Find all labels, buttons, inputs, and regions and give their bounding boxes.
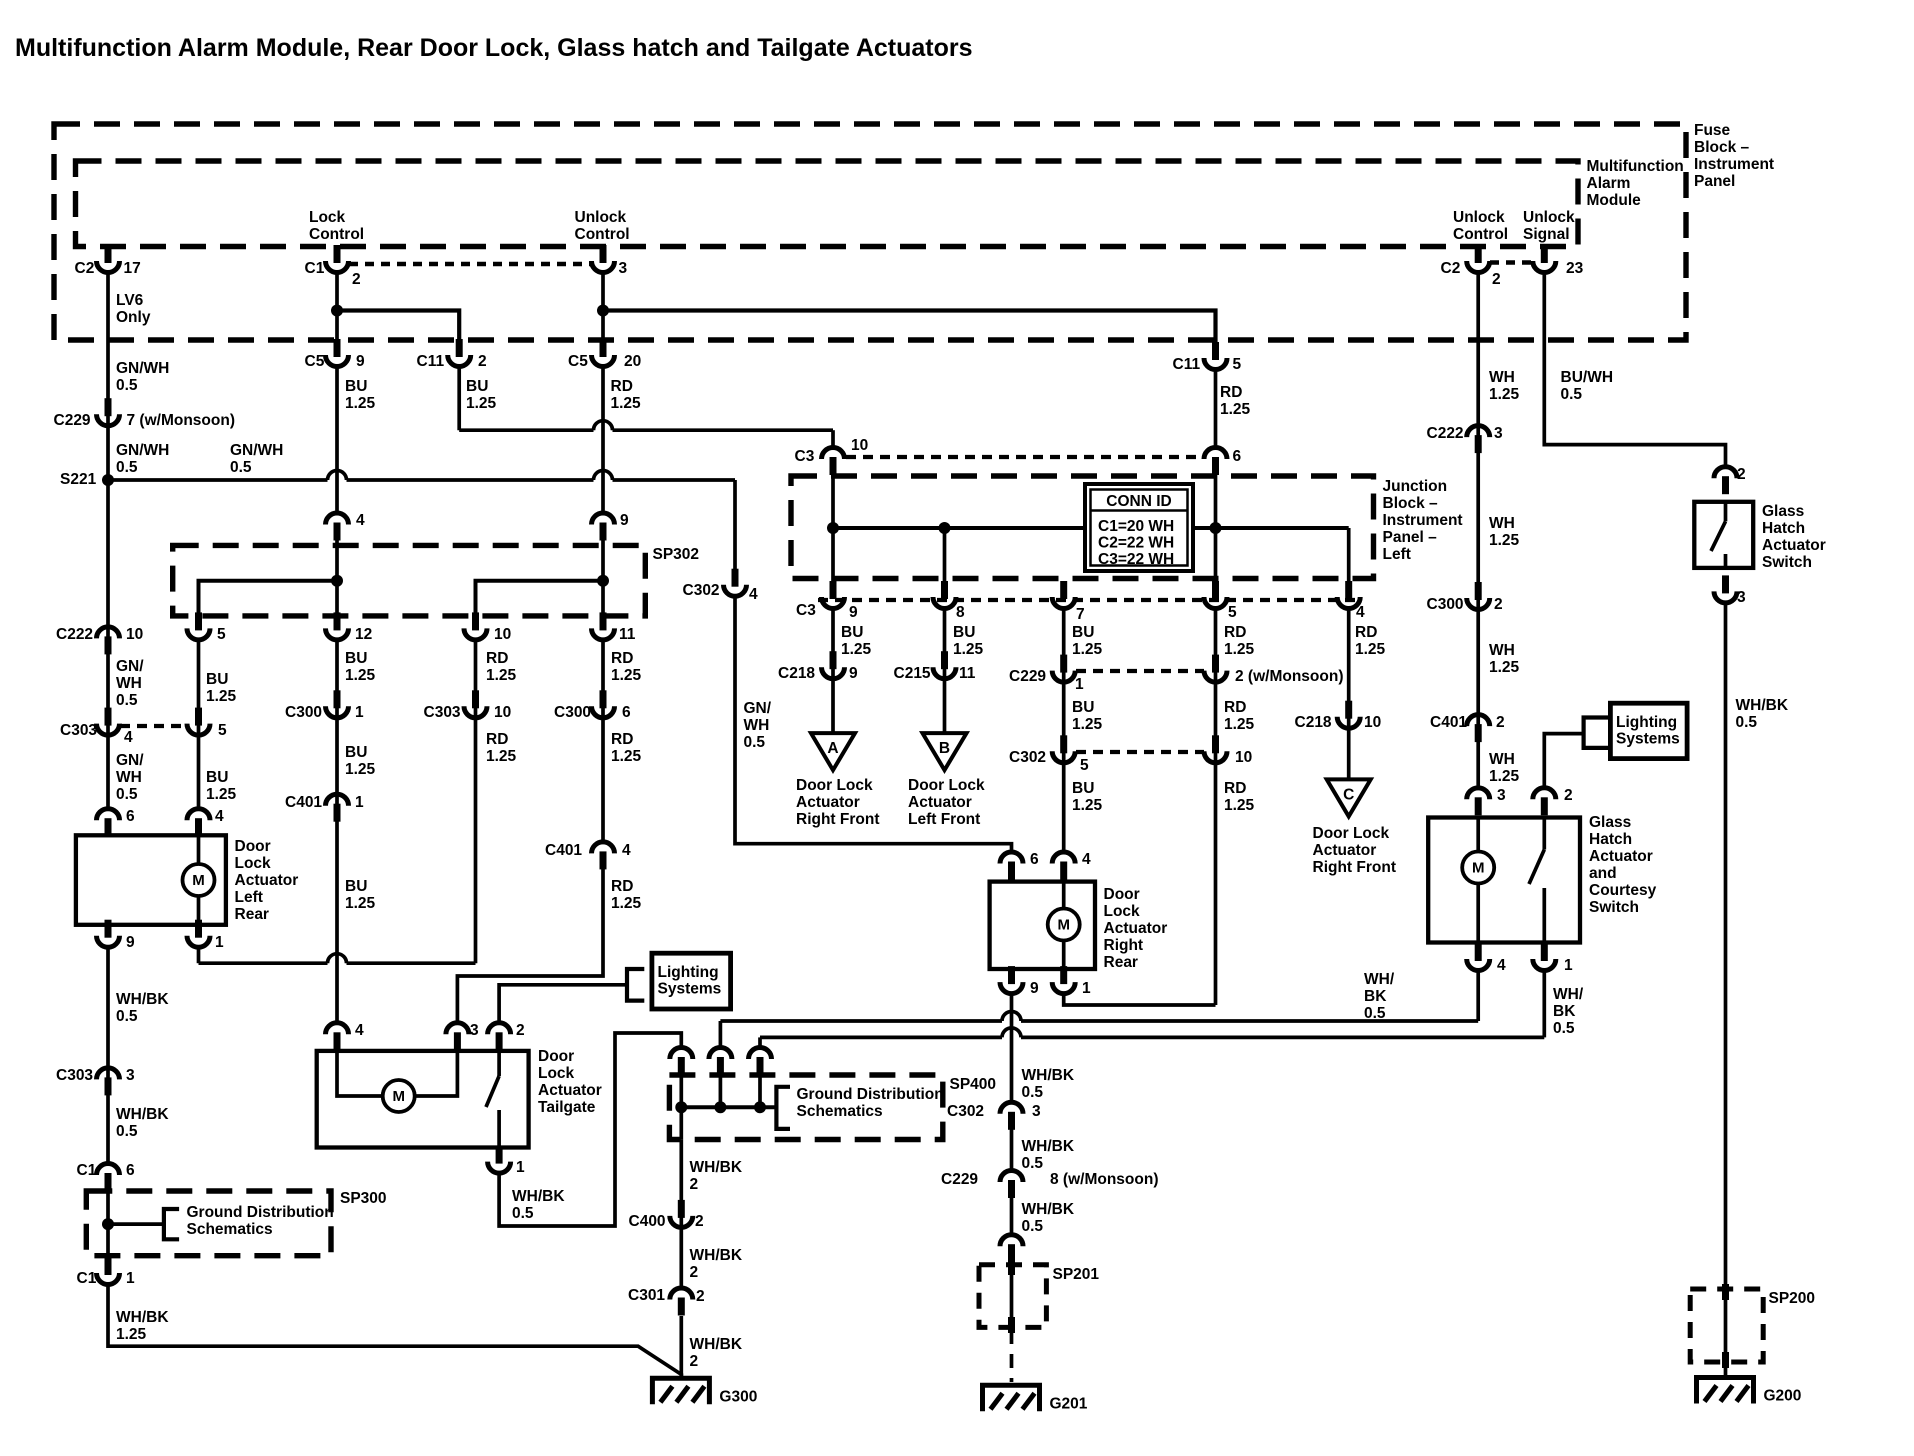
svg-text:Lighting: Lighting xyxy=(658,964,719,981)
svg-text:G200: G200 xyxy=(1764,1388,1802,1405)
svg-text:WH/BK: WH/BK xyxy=(1022,1138,1075,1155)
bracket to Lighting Systems (glass hatch) xyxy=(1584,718,1611,748)
svg-text:1.25: 1.25 xyxy=(486,667,517,684)
svg-text:C215: C215 xyxy=(894,665,931,682)
splice SP302 (dashed box) xyxy=(173,545,646,616)
connector C1 pin 2 xyxy=(334,245,341,263)
junction dot JB bus at BU-B column xyxy=(939,522,951,534)
svg-text:and: and xyxy=(1589,865,1617,882)
svg-text:C300: C300 xyxy=(285,704,322,721)
svg-text:Glass: Glass xyxy=(1762,503,1804,520)
connector glass hatch pin 4 xyxy=(1475,943,1482,961)
wire: unlock control pin 3 down from module xyxy=(601,271,605,344)
svg-text:0.5: 0.5 xyxy=(1022,1218,1044,1235)
junction dot SP400 bus 3 xyxy=(754,1101,766,1113)
connector C218 pin 10 xyxy=(1345,701,1352,719)
wire RD 1.25: SP302-10 to C303-10 down to left-rear pin 1 run xyxy=(474,638,478,963)
SP302 internal bus (unlock side) with branch to pin 10 xyxy=(476,581,604,628)
ground G200 xyxy=(1697,1378,1754,1404)
svg-text:Door: Door xyxy=(235,838,271,855)
svg-text:GN/WH: GN/WH xyxy=(116,442,169,459)
svg-text:4: 4 xyxy=(1497,957,1506,974)
svg-text:WH/BK: WH/BK xyxy=(116,1106,169,1123)
svg-text:RD: RD xyxy=(611,650,633,667)
svg-text:Left: Left xyxy=(235,889,263,906)
connector C303 pin 4 xyxy=(105,708,112,726)
connector tailgate pin 4 xyxy=(334,1032,341,1050)
svg-text:Actuator: Actuator xyxy=(908,794,972,811)
svg-text:WH/BK: WH/BK xyxy=(1022,1067,1075,1084)
svg-text:RD: RD xyxy=(1224,624,1246,641)
svg-text:1.25: 1.25 xyxy=(345,895,376,912)
svg-text:Door Lock: Door Lock xyxy=(908,777,985,794)
svg-text:C229: C229 xyxy=(54,412,91,429)
svg-text:Systems: Systems xyxy=(658,981,722,998)
svg-text:3: 3 xyxy=(619,260,628,277)
svg-text:Door Lock: Door Lock xyxy=(796,777,873,794)
SP201 internal wire xyxy=(1010,1262,1014,1330)
svg-text:4: 4 xyxy=(622,842,631,859)
junction block - instrument panel - left (dashed box) xyxy=(791,476,1374,579)
connector C401 pin 2 xyxy=(1475,724,1482,742)
SP302 internal bus (lock side) with branch to pin 5 xyxy=(199,581,338,628)
svg-text:GN/: GN/ xyxy=(116,658,144,675)
connector C301 pin 2 xyxy=(678,1298,685,1316)
connector dash C1 row xyxy=(349,262,592,266)
svg-text:1.25: 1.25 xyxy=(1224,641,1255,658)
svg-text:C2: C2 xyxy=(1441,260,1461,277)
svg-text:WH: WH xyxy=(1489,515,1515,532)
connector C303 pin 3 xyxy=(105,1077,112,1095)
wire BU 1.25: pin 7 to C229-1 to C302-5 to right rear actuator pin 4 xyxy=(1062,607,1066,854)
svg-text:BU: BU xyxy=(953,624,975,641)
junction dot SP302 lock bus xyxy=(331,575,343,587)
svg-text:5: 5 xyxy=(1228,604,1237,621)
SP200 internal wire xyxy=(1724,1289,1728,1362)
motor M of left rear actuator xyxy=(197,835,201,864)
svg-text:1.25: 1.25 xyxy=(1489,659,1520,676)
junction dot SP400 bus 2 xyxy=(714,1101,726,1113)
svg-text:Lock: Lock xyxy=(235,855,272,872)
svg-text:2: 2 xyxy=(1494,596,1503,613)
connector SP302 pin 12 xyxy=(334,612,341,630)
svg-text:12: 12 xyxy=(355,626,372,643)
connector SP400 cup 2 xyxy=(717,1057,724,1075)
connector left rear pin 1 xyxy=(195,920,202,938)
svg-text:9: 9 xyxy=(620,512,629,529)
svg-text:CONN ID: CONN ID xyxy=(1106,493,1171,510)
connector tailgate pin 1 xyxy=(496,1146,503,1164)
svg-text:Unlock: Unlock xyxy=(1453,209,1505,226)
svg-text:6: 6 xyxy=(126,808,135,825)
connector C229 pin 7 xyxy=(105,398,112,416)
svg-text:1.25: 1.25 xyxy=(1220,401,1251,418)
svg-text:M: M xyxy=(1057,917,1070,934)
svg-text:C3: C3 xyxy=(796,602,816,619)
svg-text:0.5: 0.5 xyxy=(116,377,138,394)
svg-text:3: 3 xyxy=(1497,787,1506,804)
svg-text:Only: Only xyxy=(116,309,151,326)
svg-text:WH: WH xyxy=(1489,751,1515,768)
junction dot SP400 bus 1 xyxy=(675,1101,687,1113)
svg-text:C11: C11 xyxy=(417,353,445,370)
wire: glass hatch actuator pin 4 long run to SP400 xyxy=(1476,969,1480,1021)
connector C1 pin 6 xyxy=(105,1173,112,1191)
connector C303 pin 10 xyxy=(472,690,479,708)
svg-text:Hatch: Hatch xyxy=(1762,520,1805,537)
svg-text:Unlock: Unlock xyxy=(575,209,627,226)
svg-text:BU: BU xyxy=(206,769,228,786)
svg-text:C401: C401 xyxy=(285,794,322,811)
svg-text:9: 9 xyxy=(356,353,365,370)
connector C302 pin 10 xyxy=(1212,735,1219,753)
svg-text:RD: RD xyxy=(611,731,633,748)
connector C401 pin 4 xyxy=(600,851,607,869)
connector C1 pin 1 xyxy=(105,1257,112,1275)
motor M of glass hatch actuator xyxy=(1476,818,1480,852)
svg-text:RD: RD xyxy=(611,378,633,395)
connector C303 pin 5 xyxy=(195,708,202,726)
svg-text:C5: C5 xyxy=(568,353,588,370)
connector C5 pin 9 xyxy=(334,339,341,357)
svg-text:C302: C302 xyxy=(683,582,720,599)
junction dot JB bus at RD column xyxy=(1210,522,1222,534)
svg-text:WH: WH xyxy=(1489,642,1515,659)
svg-text:RD: RD xyxy=(1220,384,1242,401)
svg-text:Panel –: Panel – xyxy=(1383,529,1438,546)
svg-text:C2: C2 xyxy=(75,260,95,277)
svg-text:LV6: LV6 xyxy=(116,292,144,309)
svg-text:Actuator: Actuator xyxy=(235,872,299,889)
svg-text:Instrument: Instrument xyxy=(1383,512,1463,529)
wire RD 1.25: pin 5 to C229-2 to C302-10 down to right-rear pin 1 run xyxy=(1214,607,1218,1005)
svg-text:Systems: Systems xyxy=(1616,731,1680,748)
connector right rear pin 4 xyxy=(1060,862,1067,880)
svg-text:BU: BU xyxy=(345,650,367,667)
svg-text:3: 3 xyxy=(1494,425,1503,442)
wire BU 1.25: C3-9 to C218-9 to door lock actuator A xyxy=(831,607,835,733)
svg-text:Courtesy: Courtesy xyxy=(1589,882,1657,899)
Lighting Systems box (tailgate) xyxy=(652,953,731,1009)
connector C11 pin 2 xyxy=(456,339,463,357)
wire: glass hatch actuator pin 1 long run to SP400 xyxy=(1542,969,1546,1037)
svg-text:3: 3 xyxy=(1032,1103,1041,1120)
connector glass hatch switch pin 2 xyxy=(1722,476,1729,494)
svg-text:BU: BU xyxy=(841,624,863,641)
svg-text:Glass: Glass xyxy=(1589,814,1631,831)
svg-text:0.5: 0.5 xyxy=(230,459,252,476)
svg-text:C300: C300 xyxy=(554,704,591,721)
svg-text:0.5: 0.5 xyxy=(1022,1155,1044,1172)
svg-text:C401: C401 xyxy=(545,842,582,859)
svg-text:S221: S221 xyxy=(60,471,97,488)
wire between C302-3 and C229-8 xyxy=(1010,1129,1014,1171)
svg-text:1.25: 1.25 xyxy=(466,395,497,412)
svg-text:0.5: 0.5 xyxy=(116,786,138,803)
svg-text:WH/BK: WH/BK xyxy=(690,1159,743,1176)
svg-text:C400: C400 xyxy=(629,1213,666,1230)
JB internal: bus down to pin 4 xyxy=(1347,528,1351,597)
svg-text:1: 1 xyxy=(355,794,364,811)
SP400 internal bus xyxy=(681,1105,776,1109)
svg-text:5: 5 xyxy=(1080,757,1089,774)
connector dash C3 top row xyxy=(846,455,1202,459)
SP302 internal wire pin4 to pin 12 xyxy=(335,540,339,628)
svg-text:0.5: 0.5 xyxy=(1561,386,1583,403)
connector tailgate pin 3 xyxy=(454,1032,461,1050)
svg-text:1.25: 1.25 xyxy=(953,641,984,658)
svg-text:1.25: 1.25 xyxy=(611,895,642,912)
svg-text:Right Front: Right Front xyxy=(796,811,880,828)
svg-text:10: 10 xyxy=(851,437,868,454)
svg-text:B: B xyxy=(939,740,950,757)
svg-text:1.25: 1.25 xyxy=(1072,641,1103,658)
connector C5 pin 20 xyxy=(600,339,607,357)
svg-text:0.5: 0.5 xyxy=(116,692,138,709)
svg-text:RD: RD xyxy=(1224,780,1246,797)
svg-text:1.25: 1.25 xyxy=(1489,532,1520,549)
bracket to Ground Distribution Schematics (SP400) xyxy=(776,1087,790,1129)
wire: SP200 to G200 xyxy=(1724,1362,1728,1378)
svg-text:GN/WH: GN/WH xyxy=(230,442,283,459)
connector C401 pin 1 xyxy=(334,804,341,822)
wire: right rear actuator pin 1 over to RD wire xyxy=(1064,992,1216,1005)
svg-text:1.25: 1.25 xyxy=(1072,797,1103,814)
svg-text:C229: C229 xyxy=(941,1171,978,1188)
svg-text:1.25: 1.25 xyxy=(345,667,376,684)
svg-text:1: 1 xyxy=(1564,957,1573,974)
svg-text:Unlock: Unlock xyxy=(1523,209,1575,226)
svg-text:0.5: 0.5 xyxy=(512,1205,534,1222)
svg-text:Control: Control xyxy=(309,226,364,243)
connector C215 pin 11 xyxy=(941,651,948,669)
fuse block - instrument panel (outer dashed box) xyxy=(54,124,1686,340)
connector C302 pin 5 xyxy=(1060,735,1067,753)
connector pin 23 unlock signal xyxy=(1541,245,1548,263)
Door Lock Actuator Right Rear box xyxy=(990,882,1095,969)
tailgate switch contacts xyxy=(497,1051,501,1076)
connector connector above SP201 xyxy=(1008,1244,1015,1262)
svg-text:WH/BK: WH/BK xyxy=(1736,697,1789,714)
dashed wire: SP201 to G201 xyxy=(1010,1330,1014,1382)
wire BU 1.25: pin 8 to C215-11 to door lock actuator B xyxy=(943,607,947,733)
svg-text:0.5: 0.5 xyxy=(1553,1020,1575,1037)
wire WH/BK 0.5: glass hatch switch pin 3 down to SP200 xyxy=(1724,601,1728,1289)
svg-text:Lock: Lock xyxy=(309,209,346,226)
svg-text:C222: C222 xyxy=(56,626,93,643)
connector C222 pin 10 xyxy=(105,636,112,654)
connector C302 pin 4 xyxy=(732,569,739,587)
svg-text:BU: BU xyxy=(1072,624,1094,641)
connector dash C229 row xyxy=(1076,669,1204,673)
svg-text:WH/BK: WH/BK xyxy=(690,1247,743,1264)
svg-text:Door Lock: Door Lock xyxy=(1313,825,1390,842)
svg-text:Left Front: Left Front xyxy=(908,811,980,828)
wire GN/WH 0.5: S221 over to C302-4 xyxy=(108,478,328,482)
svg-text:1.25: 1.25 xyxy=(1355,641,1386,658)
svg-text:C229: C229 xyxy=(1009,668,1046,685)
svg-text:10: 10 xyxy=(494,704,511,721)
connector left rear pin 6 xyxy=(105,818,112,836)
connector SP302 pin 4 top xyxy=(334,523,341,541)
svg-text:Tailgate: Tailgate xyxy=(538,1099,596,1116)
SP400 feeds from cups xyxy=(679,1076,683,1139)
svg-text:C1: C1 xyxy=(77,1162,97,1179)
svg-text:1.25: 1.25 xyxy=(1224,716,1255,733)
svg-text:C302: C302 xyxy=(947,1103,984,1120)
svg-text:WH/BK: WH/BK xyxy=(116,1309,169,1326)
svg-text:Actuator: Actuator xyxy=(796,794,860,811)
svg-text:8: 8 xyxy=(956,604,965,621)
svg-text:8 (w/Monsoon): 8 (w/Monsoon) xyxy=(1050,1171,1159,1188)
ground G201 xyxy=(983,1385,1040,1411)
svg-text:C218: C218 xyxy=(1295,714,1332,731)
svg-text:10: 10 xyxy=(126,626,143,643)
svg-text:RD: RD xyxy=(1224,699,1246,716)
svg-text:WH/BK: WH/BK xyxy=(116,991,169,1008)
svg-text:0.5: 0.5 xyxy=(116,1008,138,1025)
junction block internal bus xyxy=(833,526,1349,530)
svg-text:RD: RD xyxy=(486,731,508,748)
svg-text:C303: C303 xyxy=(424,704,461,721)
svg-text:SP300: SP300 xyxy=(340,1190,387,1207)
svg-text:7: 7 xyxy=(1076,606,1085,623)
svg-text:SP302: SP302 xyxy=(653,546,700,563)
svg-text:Fuse: Fuse xyxy=(1694,122,1731,139)
svg-text:BU: BU xyxy=(1072,780,1094,797)
svg-text:M: M xyxy=(1472,860,1485,877)
svg-text:C401: C401 xyxy=(1430,714,1467,731)
svg-text:C1: C1 xyxy=(77,1270,97,1287)
svg-text:SP200: SP200 xyxy=(1769,1290,1816,1307)
wire: tailgate pin 2 to lighting systems bracket xyxy=(499,985,627,1024)
connector dash C3 bottom row xyxy=(818,598,1362,602)
connector C222 pin 3 xyxy=(1475,435,1482,453)
svg-text:7 (w/Monsoon): 7 (w/Monsoon) xyxy=(127,412,236,429)
wire WH/BK 0.5: right rear pin 9 down to C302-3 C229-8 SP201 xyxy=(1010,992,1014,1103)
Door Lock Actuator Left Rear box xyxy=(76,835,226,925)
svg-text:1: 1 xyxy=(126,1270,135,1287)
Glass Hatch Actuator and Courtesy Switch box xyxy=(1428,818,1580,943)
svg-text:WH: WH xyxy=(116,675,142,692)
connector C3 pin 9 xyxy=(830,581,837,599)
connector C3 pin 8 xyxy=(941,581,948,599)
svg-text:C1=20 WH: C1=20 WH xyxy=(1098,518,1174,535)
svg-text:C303: C303 xyxy=(60,722,97,739)
svg-text:WH: WH xyxy=(1489,369,1515,386)
svg-text:1.25: 1.25 xyxy=(345,395,376,412)
svg-text:2: 2 xyxy=(695,1213,704,1230)
wire: branch from lock control to C11 pin 2 xyxy=(337,311,459,345)
svg-text:5: 5 xyxy=(1233,356,1242,373)
wire BU/WH 0.5: pin 23 unlock signal over to glass hatch switch pin 2 xyxy=(1544,271,1725,468)
svg-text:2: 2 xyxy=(1564,787,1573,804)
svg-text:Block –: Block – xyxy=(1694,139,1750,156)
svg-text:A: A xyxy=(827,740,838,757)
svg-text:2: 2 xyxy=(352,271,361,288)
wire RD 1.25: C5-20 down through SP302 pin 9 xyxy=(601,365,605,515)
svg-text:1.25: 1.25 xyxy=(116,1326,147,1343)
svg-text:BU: BU xyxy=(1072,699,1094,716)
svg-text:C302: C302 xyxy=(1009,749,1046,766)
svg-text:2: 2 xyxy=(690,1176,699,1193)
svg-text:C301: C301 xyxy=(628,1287,665,1304)
svg-text:G300: G300 xyxy=(719,1388,757,1405)
connector right rear pin 6 xyxy=(1008,862,1015,880)
svg-text:1.25: 1.25 xyxy=(486,748,517,765)
svg-text:GN/: GN/ xyxy=(744,700,772,717)
svg-text:4: 4 xyxy=(124,729,133,746)
svg-text:Alarm: Alarm xyxy=(1587,175,1631,192)
wire BU 1.25: C11-2 down and over to C3-10 xyxy=(457,365,461,430)
svg-text:1: 1 xyxy=(1075,676,1084,693)
connector SP400 cup 3 xyxy=(757,1057,764,1075)
svg-text:0.5: 0.5 xyxy=(116,1123,138,1140)
svg-text:Lock: Lock xyxy=(1104,903,1141,920)
bracket to Lighting Systems (tailgate) xyxy=(627,969,644,1001)
connector tailgate pin 2 xyxy=(496,1032,503,1050)
svg-text:GN/WH: GN/WH xyxy=(116,360,169,377)
svg-text:9: 9 xyxy=(1030,980,1039,997)
svg-text:9: 9 xyxy=(849,604,858,621)
svg-text:1.25: 1.25 xyxy=(1489,768,1520,785)
JB internal: bus down to pin 8 xyxy=(943,528,947,597)
bracket to Ground Distribution Schematics (SP300) xyxy=(164,1209,179,1239)
svg-text:BK: BK xyxy=(1364,988,1387,1005)
svg-text:2: 2 xyxy=(696,1288,705,1305)
svg-text:BU/WH: BU/WH xyxy=(1561,369,1614,386)
svg-text:0.5: 0.5 xyxy=(1364,1005,1386,1022)
svg-text:4: 4 xyxy=(356,512,365,529)
svg-text:6: 6 xyxy=(126,1162,135,1179)
junction dot JB bus at BU-A column xyxy=(827,522,839,534)
svg-text:Lighting: Lighting xyxy=(1616,714,1677,731)
connector C3 pin 5 xyxy=(1212,581,1219,599)
Door Lock Actuator Tailgate box xyxy=(317,1051,529,1148)
door lock actuator right front triangle C xyxy=(1327,779,1371,816)
svg-text:Right: Right xyxy=(1104,937,1144,954)
connector dash C303 row xyxy=(120,724,187,728)
connector C302 pin 3 xyxy=(1008,1112,1015,1130)
svg-text:11: 11 xyxy=(619,626,636,643)
svg-text:9: 9 xyxy=(849,665,858,682)
junction block internal wire pin6 down to pin 5 xyxy=(1214,475,1218,597)
svg-text:Actuator: Actuator xyxy=(1313,842,1377,859)
svg-text:1: 1 xyxy=(516,1159,525,1176)
svg-text:20: 20 xyxy=(624,353,641,370)
wire BU 1.25: SP302-5 to C303-5 to Door Lock Actuator Left Rear pin 4 xyxy=(197,638,201,810)
connector right rear pin 1 xyxy=(1060,966,1067,984)
connector glass hatch switch pin 3 xyxy=(1722,575,1729,593)
svg-text:2: 2 xyxy=(478,353,487,370)
svg-text:3: 3 xyxy=(470,1022,479,1039)
connector C3 pin 4 xyxy=(1345,581,1352,599)
svg-text:Schematics: Schematics xyxy=(797,1103,883,1120)
svg-text:C3=22 WH: C3=22 WH xyxy=(1098,551,1174,568)
connector C300 pin 1 xyxy=(334,690,341,708)
svg-text:10: 10 xyxy=(494,626,511,643)
svg-text:Left: Left xyxy=(1383,546,1411,563)
svg-text:23: 23 xyxy=(1566,260,1584,277)
svg-text:Instrument: Instrument xyxy=(1694,156,1774,173)
svg-text:WH: WH xyxy=(116,769,142,786)
svg-text:1: 1 xyxy=(215,934,224,951)
svg-text:WH/BK: WH/BK xyxy=(512,1188,565,1205)
svg-text:Door: Door xyxy=(1104,886,1140,903)
wire WH/BK 0.5: left rear pin 9 to C303-3 to C1-6 into SP300 xyxy=(106,946,110,1164)
svg-text:1.25: 1.25 xyxy=(1224,797,1255,814)
svg-text:WH/BK: WH/BK xyxy=(690,1336,743,1353)
